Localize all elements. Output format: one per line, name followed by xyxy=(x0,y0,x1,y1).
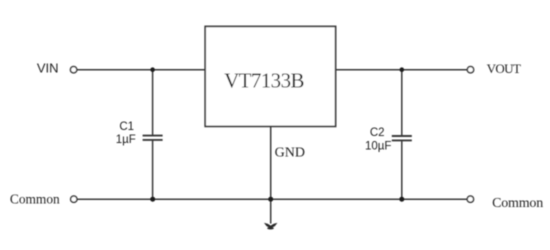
ground xyxy=(264,223,277,230)
node junction C1 top xyxy=(150,67,155,72)
terminal Common right xyxy=(467,196,473,202)
terminal VOUT xyxy=(467,67,473,73)
node junction C2 top xyxy=(400,67,405,72)
svg-text:Common: Common xyxy=(492,196,543,211)
op-amp U1 regulator box VT7133B xyxy=(205,26,335,126)
svg-text:VIN: VIN xyxy=(37,60,59,75)
capacitor C1 xyxy=(143,136,163,140)
wire GND pin down to ground xyxy=(270,126,272,223)
node junction ground rail xyxy=(268,197,273,202)
svg-text:10µF: 10µF xyxy=(365,140,391,152)
node junction C2 bottom xyxy=(399,197,404,202)
svg-text:C2: C2 xyxy=(370,127,385,139)
wire C2 upper segment xyxy=(401,70,403,136)
wire C1 upper segment xyxy=(152,70,154,136)
terminal VIN xyxy=(70,67,76,73)
wire VIN to U1 left pin xyxy=(77,69,206,71)
svg-text:VOUT: VOUT xyxy=(487,61,521,76)
wire U1 right pin to VOUT xyxy=(336,69,468,71)
node junction C1 bottom xyxy=(150,197,155,202)
capacitor C2 xyxy=(392,136,412,140)
svg-text:VT7133B: VT7133B xyxy=(224,68,304,92)
wire C1 lower segment xyxy=(152,140,154,199)
wire C2 lower segment xyxy=(401,140,403,199)
wire bottom common rail xyxy=(77,198,467,200)
svg-text:1µF: 1µF xyxy=(116,134,136,146)
terminal Common left xyxy=(71,196,77,202)
svg-text:GND: GND xyxy=(275,145,305,160)
svg-text:C1: C1 xyxy=(119,121,134,133)
svg-text:Common: Common xyxy=(10,191,60,206)
